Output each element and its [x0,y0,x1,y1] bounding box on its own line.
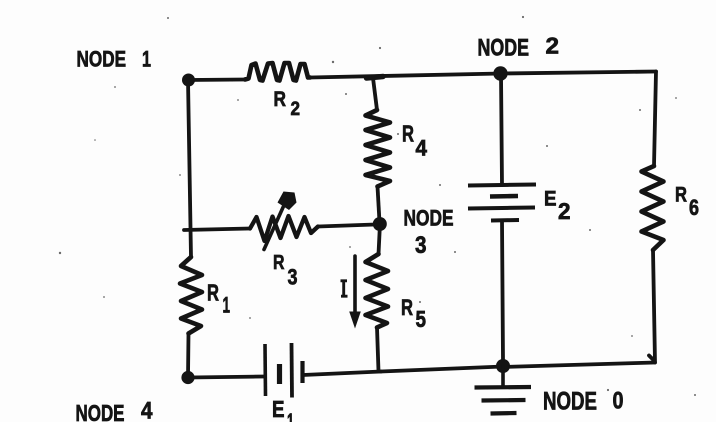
resistor R5 [366,254,389,328]
svg-text:NODE: NODE [478,35,530,62]
svg-text:1: 1 [142,47,151,72]
svg-text:6: 6 [689,195,699,220]
battery E2 [468,185,536,221]
node NODE 2 junction [493,66,507,80]
wire [184,229,250,231]
svg-text:NODE: NODE [76,400,125,422]
label R5 [401,295,426,332]
resistor R6 [642,166,664,250]
label E1 [272,396,294,422]
svg-text:2: 2 [291,99,301,120]
svg-text:1: 1 [287,409,294,422]
label E2 [544,187,571,225]
wire [188,377,264,378]
label NODE 2 [478,33,560,62]
wire [381,367,503,372]
wire [501,72,656,74]
svg-text:5: 5 [416,306,427,332]
label NODE 3 [404,206,454,260]
svg-text:R: R [273,251,285,274]
label NODE 0 [543,388,624,416]
wire [367,77,384,111]
svg-text:R: R [274,87,287,111]
wire [377,328,379,372]
svg-text:3: 3 [415,232,427,259]
svg-text:4: 4 [141,398,153,422]
ground (NODE 0) [475,366,532,414]
label R6 [675,183,699,221]
node NODE 3 junction [373,217,387,231]
label R4 [402,121,428,161]
wire [378,187,380,223]
svg-text:2: 2 [558,198,571,224]
current arrow I [353,256,357,315]
label NODE 1 [77,47,152,72]
svg-text:NODE: NODE [77,47,127,72]
svg-text:E: E [272,396,285,422]
svg-text:R: R [207,280,219,306]
svg-text:R: R [675,183,687,207]
node NODE 0 junction [496,359,510,373]
svg-text:4: 4 [416,136,428,161]
wire [653,250,655,363]
arrow (R3 wiper) [264,203,285,250]
wire [318,225,375,227]
svg-text:2: 2 [546,33,560,59]
wire [379,224,381,255]
svg-text:3: 3 [288,265,298,290]
resistor R2 [245,63,310,81]
node NODE 1 junction [182,74,195,87]
wire [188,78,245,82]
svg-text:R: R [401,295,413,320]
label R1 [207,280,230,318]
svg-text:R: R [402,121,414,147]
wire [186,334,190,378]
wire [649,356,655,362]
battery E1 [265,343,303,398]
label R3 [273,251,298,290]
svg-text:1: 1 [223,293,231,318]
wire [188,80,191,257]
resistor R4 [366,110,391,187]
wire [503,363,655,368]
svg-text:NODE: NODE [404,206,454,231]
wire [502,221,503,361]
wire [501,74,502,186]
node NODE 4 junction [181,371,194,384]
svg-text:E: E [544,187,557,211]
label NODE 4 [76,398,154,422]
svg-text:0: 0 [613,388,624,415]
label I (current) [341,281,348,296]
wire [303,372,381,376]
svg-text:NODE: NODE [543,388,597,416]
resistor R1 [180,257,202,334]
resistor R3 (variable) [250,216,318,241]
wire [310,74,501,78]
wire [654,72,656,167]
label R2 [274,87,301,120]
